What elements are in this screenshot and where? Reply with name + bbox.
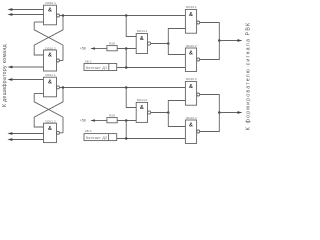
wire cross-coupling from G4 output to G3 input — [34, 94, 63, 133]
wire branch down to DD19.4 input 1 — [168, 113, 185, 127]
wire G1 input 1 with left arrow — [7, 8, 43, 11]
gate DD14.1 — [136, 29, 151, 53]
wire DD14.1 output — [151, 43, 169, 45]
wire cross-coupling from G2 output to G1 input — [34, 22, 63, 61]
wire G2 input with left arrow — [7, 66, 43, 69]
wire output arrow bottom channel — [219, 111, 242, 114]
wire contact D2 to DD19.4 input 2 — [117, 138, 186, 140]
wire G3 input 3 — [34, 93, 43, 95]
svg-text:DD19.3: DD19.3 — [186, 77, 197, 81]
node junction at x63 bottom — [62, 86, 65, 89]
wire G1 input 3 — [34, 21, 43, 23]
svg-text:&: & — [140, 36, 144, 42]
wire R29 to DD14.2 input 2 — [117, 120, 136, 122]
resistor R29 — [107, 114, 117, 123]
node junction outputs bottom channel — [218, 111, 221, 114]
node junction contact line — [125, 66, 128, 69]
svg-text:&: & — [189, 84, 193, 90]
wire DD19.2 output — [200, 41, 220, 60]
svg-text:&: & — [48, 126, 52, 132]
svg-text:&: & — [48, 8, 52, 14]
wire vertical R2 line to contact line — [125, 121, 127, 139]
svg-text:R29: R29 — [109, 114, 115, 118]
svg-text:R28: R28 — [109, 42, 115, 46]
wire G3 input 1 with left arrow — [7, 78, 43, 81]
node junction R29 line — [125, 119, 128, 122]
svg-text:К формирователю сигнала РВК: К формирователю сигнала РВК — [246, 22, 252, 130]
svg-text:DD14.2: DD14.2 — [137, 98, 148, 102]
power +5V arrow top — [80, 46, 107, 50]
wire contact D1 to DD19.2 input 2 — [117, 67, 186, 69]
wire branch up to DD19.3 input 2 — [168, 101, 185, 113]
svg-text:DD10.1: DD10.1 — [45, 1, 56, 5]
wire DD14.2 output — [151, 112, 169, 114]
node junction outputs top channel — [218, 39, 221, 42]
gate DD11.1 — [44, 73, 60, 97]
gate DD10.1 — [44, 1, 60, 25]
node junction at x126 bottom — [125, 86, 128, 89]
wire G3 output line to DD19.3 — [60, 87, 186, 89]
gate DD19.3 — [185, 77, 199, 105]
svg-text:+5В: +5В — [80, 118, 86, 122]
wire vertical R line to contact line — [125, 49, 127, 68]
svg-text:+5В: +5В — [80, 46, 86, 50]
svg-text:&: & — [189, 123, 193, 129]
svg-text:&: & — [140, 105, 144, 111]
power +5V arrow bottom — [80, 118, 107, 122]
wire output arrow top channel — [219, 39, 242, 42]
contact KV.2 Kontakt D1 — [84, 59, 117, 70]
wire G1 input 2 with left arrow — [7, 13, 43, 16]
wire vertical from bottom line to DD14.2 input 1 — [126, 88, 136, 108]
gate DD19.4 — [185, 116, 199, 144]
node junction contact line bottom — [125, 137, 128, 140]
wire DD19.4 output — [200, 113, 220, 132]
wire cross-coupling from G3 output to G4 input — [34, 88, 63, 128]
svg-text:&: & — [189, 12, 193, 18]
wire branch up to DD19.1 input 2 — [168, 29, 185, 44]
gate DD10.2 — [44, 46, 60, 71]
resistor R28 — [107, 42, 117, 51]
svg-text:DD14.1: DD14.1 — [137, 29, 148, 33]
node junction R28 line — [125, 47, 128, 50]
svg-text:Контакт Д1: Контакт Д1 — [86, 66, 107, 70]
gate DD19.2 — [185, 44, 199, 72]
node junction DD14.2 output branch — [167, 111, 170, 114]
wire DD19.1 output — [200, 23, 220, 41]
wire G1 output line to DD19.1 — [60, 15, 186, 17]
svg-text:&: & — [189, 51, 193, 57]
wire branch down to DD19.2 input 1 — [168, 44, 185, 55]
svg-text:&: & — [48, 80, 52, 86]
gate DD11.2 — [44, 120, 60, 143]
node junction at x126 — [125, 14, 128, 17]
svg-text:DD19.1: DD19.1 — [186, 5, 197, 9]
wire G2 output to cross — [60, 60, 64, 62]
svg-text:DD11.1: DD11.1 — [45, 73, 56, 77]
svg-text:DD10.2: DD10.2 — [45, 46, 56, 50]
wire vertical from top line to DD14.1 input 1 — [126, 16, 136, 37]
node junction DD14.1 output branch — [167, 42, 170, 45]
wire G4 output to cross — [60, 132, 64, 134]
svg-text:КВ.3: КВ.3 — [85, 129, 92, 133]
svg-text:DD19.2: DD19.2 — [186, 44, 197, 48]
wire R28 to DD14.1 input 2 — [117, 48, 136, 50]
gate DD14.2 — [136, 98, 151, 122]
contact KV.3 Kontakt D2 — [84, 129, 117, 140]
svg-text:К дешифратору команд: К дешифратору команд — [2, 44, 8, 107]
svg-text:DD19.4: DD19.4 — [186, 116, 197, 120]
svg-text:&: & — [48, 52, 52, 58]
wire G4 input 1 with left arrow — [7, 132, 43, 135]
wire G4 input 2 with left arrow — [7, 138, 43, 141]
gate DD19.1 — [185, 5, 199, 33]
svg-text:DD11.2: DD11.2 — [45, 120, 56, 124]
node junction at x63 — [62, 14, 65, 17]
wire DD19.3 output — [200, 95, 220, 113]
svg-text:КВ.2: КВ.2 — [85, 59, 92, 63]
svg-text:Контакт Д2: Контакт Д2 — [86, 136, 107, 140]
wire cross-coupling from G1 output to G2 input — [34, 16, 63, 56]
